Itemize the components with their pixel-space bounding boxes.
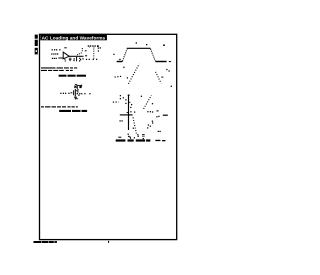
svg-text:AC Loading and Waveforms: AC Loading and Waveforms (42, 35, 106, 40)
